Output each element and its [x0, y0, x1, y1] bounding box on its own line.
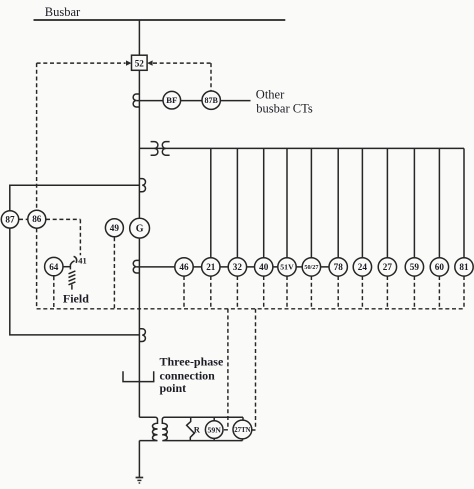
- field breaker 41 blade: [70, 261, 74, 265]
- wire: dashed from output bus to 27TN: [252, 309, 256, 430]
- relay BF (breaker failure): [163, 91, 181, 109]
- wire: dashed below 49: [113, 237, 115, 309]
- svg-text:60: 60: [435, 262, 445, 272]
- ground: [136, 478, 144, 484]
- three-phase connection point marker: [123, 371, 154, 381]
- VT / CT pair on relay bus: [151, 142, 170, 156]
- svg-text:40: 40: [259, 262, 269, 272]
- wire: dashed below 64: [53, 276, 55, 309]
- wire: secondary loop right side: [242, 417, 245, 440]
- generator G: [130, 218, 150, 238]
- svg-text:27: 27: [383, 262, 393, 272]
- field breaker 41 hinge: [69, 264, 71, 269]
- svg-text:59N: 59N: [207, 425, 221, 434]
- wire: 59N stub: [213, 417, 215, 440]
- wire: dashed stubs below relay circles: [184, 276, 464, 309]
- secondary winding ticks: [162, 429, 167, 435]
- svg-text:R: R: [194, 425, 201, 435]
- wire: drops from relay bus to relay circles: [211, 148, 464, 258]
- wire: dashed relay output bus: [37, 308, 464, 310]
- relay 40: [255, 258, 273, 276]
- svg-text:24: 24: [358, 262, 368, 272]
- relay 49 (thermal): [105, 219, 123, 237]
- svg-text:BF: BF: [166, 95, 177, 105]
- relay 51V: [278, 258, 296, 276]
- svg-text:51V: 51V: [280, 263, 294, 272]
- svg-text:86: 86: [32, 214, 42, 224]
- relay 60: [430, 258, 448, 276]
- svg-text:27TN: 27TN: [234, 427, 250, 434]
- relay 27: [378, 258, 396, 276]
- svg-text:87: 87: [5, 214, 15, 224]
- relay 46: [175, 258, 193, 276]
- CT for generator differential (upper): [139, 179, 145, 192]
- field discharge resistor: [69, 271, 76, 285]
- svg-text:41: 41: [78, 256, 87, 266]
- relay 50/27: [302, 258, 320, 276]
- svg-text:78: 78: [334, 262, 344, 272]
- relay 87B (bus differential): [202, 91, 220, 109]
- grounding transformer primary: [139, 417, 157, 440]
- svg-text:59: 59: [410, 262, 420, 272]
- arrowhead into 52 (left): [126, 60, 132, 65]
- CT for busbar protection (top): [133, 94, 139, 107]
- relay 81: [455, 258, 473, 276]
- primary winding ticks: [153, 429, 158, 435]
- wire: dashed 86 down to relay output bus: [36, 228, 38, 308]
- field breaker 41 contact: [74, 256, 77, 263]
- svg-text:32: 32: [233, 262, 243, 272]
- wire: relay supply bus (top horizontal): [139, 147, 464, 149]
- relay 24: [353, 258, 371, 276]
- svg-text:21: 21: [206, 262, 216, 272]
- relay 27TN (third-harmonic neutral undervoltage): [233, 420, 252, 439]
- svg-text:50/27: 50/27: [304, 264, 318, 271]
- grounding resistor R: [187, 417, 195, 440]
- relay 32: [228, 258, 246, 276]
- svg-text:Three-phase: Three-phase: [160, 354, 224, 368]
- wire: CT secondary to BF and 87B: [136, 100, 250, 102]
- wire: dashed from output bus to 59N: [223, 309, 228, 430]
- wire: dashed 87 to 86: [19, 218, 28, 220]
- svg-text:Field: Field: [63, 292, 89, 306]
- relay 87 (generator differential): [1, 211, 18, 228]
- arrowhead into 52 (right): [147, 60, 153, 65]
- grounding transformer secondary: [162, 417, 243, 440]
- wire: busbar to breaker 52: [138, 20, 140, 55]
- relay 78: [329, 258, 347, 276]
- relay 59N (neutral overvoltage): [205, 421, 223, 439]
- breaker 52: [132, 55, 148, 70]
- busbar: [34, 19, 286, 21]
- wire: dashed 86 up to 52 trip line: [36, 63, 38, 210]
- wire: ground lead: [138, 441, 140, 478]
- svg-text:49: 49: [110, 223, 120, 233]
- svg-text:Busbar: Busbar: [45, 5, 81, 19]
- wire: relay string horizontal: [136, 266, 338, 268]
- svg-text:G: G: [136, 224, 144, 235]
- relay 59: [405, 258, 423, 276]
- svg-text:64: 64: [49, 262, 59, 272]
- svg-text:busbar CTs: busbar CTs: [256, 101, 313, 115]
- svg-text:87B: 87B: [205, 96, 219, 105]
- wire: resistor bottom stub: [71, 285, 73, 290]
- wire: dashed trip line from lockout 86 to breaker 52: [37, 62, 126, 64]
- wire: differential CT loop (left): [10, 185, 140, 335]
- relay 86 (lockout): [28, 210, 46, 228]
- relay 64 (field ground): [45, 257, 63, 275]
- wire: main generator lead (52 to transformer): [138, 70, 140, 417]
- wire: dashed trip line from 87B to breaker 52: [153, 63, 211, 90]
- relay 21: [202, 258, 220, 276]
- svg-text:81: 81: [459, 262, 469, 272]
- wire: dashed 86 to field breaker 41: [46, 219, 80, 255]
- CT for stator relays: [133, 260, 139, 273]
- svg-text:52: 52: [135, 58, 145, 68]
- svg-text:point: point: [160, 381, 187, 395]
- CT for generator differential (lower): [139, 329, 145, 342]
- svg-text:46: 46: [179, 262, 189, 272]
- svg-text:Other: Other: [256, 88, 285, 102]
- wire: 64 to field circuit: [63, 266, 70, 268]
